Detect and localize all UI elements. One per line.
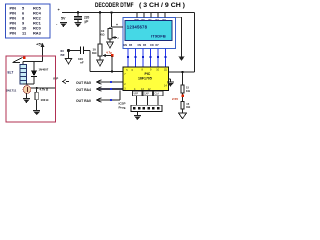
svg-text:OUT RA4: OUT RA4 xyxy=(76,88,91,92)
wiper arrow of R2 to node A xyxy=(103,54,107,57)
svg-text:+: + xyxy=(116,23,118,27)
wire Q1 base with resistor 4.7k label and junction xyxy=(31,87,55,89)
ground at Q1 emitter xyxy=(26,93,28,98)
node A junction dot (red) xyxy=(111,54,114,57)
svg-text:Prog.: Prog. xyxy=(119,105,127,109)
ground below ICSP connector xyxy=(136,111,138,115)
svg-text:4.7µ: 4.7µ xyxy=(106,51,112,55)
ground at U1 Vss xyxy=(167,82,174,87)
wire U1 pin 1 to rail xyxy=(169,71,195,73)
svg-text:CN: CN xyxy=(150,44,154,47)
wire rail to trimmer R2 xyxy=(99,13,101,45)
wire rail right corner down xyxy=(194,13,196,73)
ground arrow below R2 xyxy=(97,60,104,66)
svg-text:KΩ: KΩ xyxy=(186,105,190,109)
ground arrow below divider xyxy=(179,113,187,119)
svg-text:PIN: PIN xyxy=(10,31,17,36)
trimmer R2 10K input level xyxy=(98,44,102,56)
wire C2 output to PIC pin 7 (with junction at node A drop) xyxy=(84,50,91,52)
wiper arrow of R1 to LCD contrast pin c xyxy=(113,37,117,39)
svg-text:16F1705: 16F1705 xyxy=(138,76,152,80)
svg-text:OUT RA0: OUT RA0 xyxy=(76,99,91,103)
svg-text:100 Ω: 100 Ω xyxy=(41,98,50,102)
svg-text:µF: µF xyxy=(85,20,89,24)
ICSP signal labels VPP CAP CLA xyxy=(133,91,164,95)
wires LCD data bus (blue) with junction markers xyxy=(128,49,166,68)
wires ICSP signals down to connector xyxy=(136,96,138,106)
svg-text:BF: BF xyxy=(61,53,65,57)
pinout table box xyxy=(6,4,51,38)
resistor R3 15K upper divider xyxy=(181,85,184,93)
svg-text:1N4007: 1N4007 xyxy=(39,68,49,72)
svg-text:RA3: RA3 xyxy=(33,31,42,36)
wire coil/diode to collector node xyxy=(23,83,34,85)
svg-text:IT9DFB: IT9DFB xyxy=(151,34,166,39)
node 2.5V junction dot (red) xyxy=(181,94,184,97)
svg-text:2.5V: 2.5V xyxy=(172,97,178,101)
svg-text:5V: 5V xyxy=(61,17,66,21)
svg-text:KΩ: KΩ xyxy=(186,89,190,93)
svg-text:EN: EN xyxy=(124,44,128,47)
svg-text:4.7k Ω: 4.7k Ω xyxy=(40,88,49,92)
transistor Q1 2N1711 xyxy=(23,86,31,94)
U1 pin numbers 5 6 8 9 10 11 1 7 2 3 14 4 13 12 xyxy=(124,68,167,91)
resistor 100 ohm to ground xyxy=(36,88,38,92)
switch contact SW (relay output) xyxy=(13,62,21,64)
trimmer R1 10K contrast xyxy=(109,27,111,29)
svg-text:ELT: ELT xyxy=(8,71,14,75)
pinout table text PIN5..PIN11 / RC5..RA3 xyxy=(10,6,42,36)
LCD module box xyxy=(123,18,176,49)
microcontroller U1 PIC 16F1705 xyxy=(123,67,169,91)
svg-text:PIC: PIC xyxy=(145,72,151,76)
wire node A down to PIC input wire xyxy=(111,56,113,72)
junction rail/level-trimmer branch xyxy=(99,11,102,14)
svg-text:VPP: VPP xyxy=(134,94,139,96)
diode D1 1N4007 flyback xyxy=(33,62,35,71)
junction rail/C1 xyxy=(77,11,80,14)
wire +5V to LCD Vcc pin with + mark xyxy=(110,11,112,13)
LCD top pin labels RW D0 D1 D2 D3 xyxy=(135,19,167,22)
capacitor C2 100nF coupling xyxy=(69,50,81,52)
wire LCD backlight to ground arrow xyxy=(176,16,182,18)
svg-text:CN: CN xyxy=(138,44,142,47)
ground arrow below R1 xyxy=(107,42,114,48)
svg-text:CLA: CLA xyxy=(155,93,160,96)
relay coil ELT xyxy=(20,65,27,85)
capacitor C1 220uF xyxy=(77,13,79,17)
resistor R4 15K lower divider xyxy=(181,102,184,110)
wire U1 ground pin stub xyxy=(169,78,171,80)
wires rail stubs to LCD top pins xyxy=(136,13,138,18)
svg-text:DECODER DTMF: DECODER DTMF xyxy=(95,2,134,9)
svg-text:2N1711: 2N1711 xyxy=(6,89,17,93)
ground below C1 xyxy=(75,23,82,28)
LCD screen showing 12345678 / IT9DFB xyxy=(125,21,172,41)
relay driver module box (dark red) xyxy=(6,56,56,122)
svg-text:OUT RA5: OUT RA5 xyxy=(76,81,91,85)
svg-text:12345678: 12345678 xyxy=(127,25,148,30)
wire +5V power rail xyxy=(62,12,195,14)
svg-text:nF: nF xyxy=(80,61,84,65)
LCD bottom pin labels EN D5 CN D5 CN D7 xyxy=(124,44,160,47)
svg-text:KΩ: KΩ xyxy=(92,51,97,55)
wire divider feed / junction on rail wire xyxy=(182,72,184,85)
svg-text:KΩ: KΩ xyxy=(100,32,105,36)
svg-text:( 3 CH / 9 CH ): ( 3 CH / 9 CH ) xyxy=(139,2,185,9)
wire +5V inside relay module xyxy=(23,61,43,63)
svg-text:CAP: CAP xyxy=(144,93,149,96)
connector ICSP Prog. header xyxy=(131,105,162,111)
